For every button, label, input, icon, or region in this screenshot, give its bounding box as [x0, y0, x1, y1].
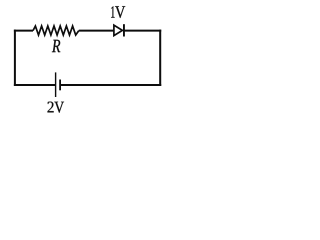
wire top-left segment — [14, 30, 33, 32]
battery short plate — [59, 80, 61, 91]
wire diode-to-corner — [124, 30, 161, 32]
diode D1 anode triangle — [114, 25, 123, 35]
battery long plate — [55, 72, 57, 97]
wire bottom-right segment — [60, 84, 161, 86]
wire right side — [159, 30, 161, 86]
label 2V — [48, 102, 65, 113]
label 1V — [111, 6, 125, 18]
resistor R — [33, 26, 79, 35]
wire resistor-to-diode — [79, 30, 114, 32]
wire left side — [14, 30, 16, 86]
diode cathode bar — [123, 24, 125, 36]
label R — [52, 40, 60, 52]
wire bottom-left segment — [14, 84, 56, 86]
